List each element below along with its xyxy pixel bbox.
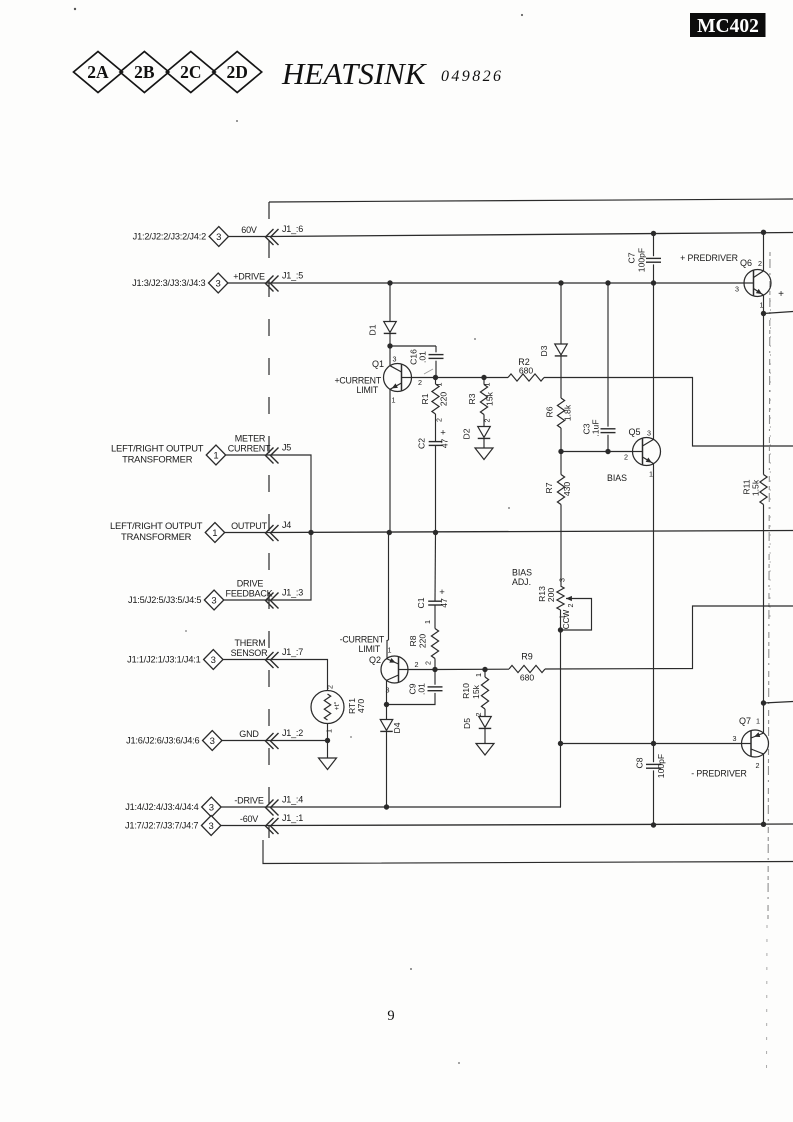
svg-text:1: 1	[325, 729, 334, 733]
wire +DRIVE to D1	[389, 283, 391, 322]
svg-text:3: 3	[647, 429, 651, 438]
junction meter/output	[308, 530, 313, 535]
wire node to C8	[653, 744, 655, 763]
R13 pin 3	[558, 578, 567, 582]
capacitor C9	[408, 683, 443, 695]
svg-text:BIAS: BIAS	[512, 568, 532, 578]
wire +DRIVE to C3	[607, 283, 609, 427]
svg-text:J1_:2: J1_:2	[282, 728, 303, 738]
label + (off-page)	[778, 289, 784, 300]
wire Q2 collector down	[386, 680, 388, 704]
Q5 pin 3	[647, 429, 651, 438]
svg-text:CURRENT: CURRENT	[228, 444, 271, 454]
svg-text:R3: R3	[467, 393, 477, 404]
svg-text:1: 1	[392, 396, 396, 405]
junction Q1 collector node	[387, 343, 392, 348]
connector J4 (OUTPUT)	[110, 520, 291, 543]
svg-text:BIAS: BIAS	[607, 473, 627, 483]
potentiometer R13	[537, 586, 564, 610]
wire C16 link	[390, 345, 436, 347]
svg-text:1: 1	[649, 470, 653, 479]
title number 049826	[441, 68, 503, 85]
svg-text:47: 47	[439, 598, 449, 608]
svg-text:2: 2	[415, 660, 419, 669]
svg-text:D2: D2	[462, 428, 472, 439]
svg-text:J1_:1: J1_:1	[282, 813, 303, 823]
wire R3 to D2	[483, 415, 485, 427]
junction bias node	[558, 449, 563, 454]
svg-text:J1_:6: J1_:6	[282, 224, 303, 234]
svg-text:HEATSINK: HEATSINK	[281, 56, 428, 91]
svg-text:9: 9	[387, 1008, 394, 1024]
wire 60V to C7	[653, 234, 655, 257]
R1 pin 2	[435, 418, 444, 422]
svg-text:C8: C8	[635, 757, 645, 768]
svg-text:3: 3	[393, 355, 397, 364]
svg-text:2: 2	[424, 661, 433, 665]
svg-text:1.5k: 1.5k	[751, 479, 761, 496]
wire 60V bus	[269, 233, 793, 237]
wire RT1 to GND row	[327, 724, 329, 741]
wire to R1	[435, 378, 437, 385]
svg-text:2B: 2B	[134, 62, 155, 82]
svg-text:THERM: THERM	[235, 638, 266, 648]
diode D2	[462, 427, 491, 440]
junction D4/-DRIVE	[384, 804, 389, 809]
RT1 pin 2	[326, 685, 335, 689]
connector J1_:4 (-DRIVE)	[125, 795, 303, 818]
wire C7 to +DRIVE	[653, 264, 655, 283]
title HEATSINK	[281, 56, 428, 91]
svg-text:-CURRENT: -CURRENT	[340, 635, 385, 645]
svg-text:CCW: CCW	[562, 609, 571, 629]
RT1 pin 1	[325, 729, 334, 733]
label BIAS	[607, 473, 627, 483]
svg-text:R1: R1	[420, 393, 430, 404]
junction +DRIVE/C3	[605, 280, 610, 285]
svg-text:15k: 15k	[485, 391, 495, 406]
wire stub off-page right	[764, 702, 793, 704]
capacitor C8	[635, 754, 667, 778]
svg-text:430: 430	[562, 482, 572, 497]
wire GND row	[269, 740, 328, 742]
junction R2-net/R3	[481, 375, 486, 380]
svg-text:R7: R7	[544, 482, 554, 493]
R8 pin 2	[424, 661, 433, 665]
svg-text:GND: GND	[239, 729, 259, 739]
svg-text:+CURRENT: +CURRENT	[334, 376, 381, 386]
transistor Q2	[369, 655, 408, 683]
svg-text:1: 1	[760, 301, 764, 310]
svg-text:3: 3	[211, 655, 216, 666]
svg-text:1: 1	[388, 646, 392, 655]
svg-text:1: 1	[212, 528, 217, 539]
svg-text:1: 1	[756, 717, 760, 726]
svg-text:C1: C1	[416, 597, 426, 608]
R13 wiper	[566, 596, 589, 608]
svg-text:2: 2	[624, 453, 628, 462]
junction Q6 emitter node	[761, 311, 766, 316]
thermistor RT1	[311, 691, 366, 724]
connector J1_:2 (GND)	[126, 728, 303, 751]
wire Q7 emitter to -60V	[763, 754, 765, 824]
svg-text:2: 2	[566, 604, 575, 608]
svg-text:1.8k: 1.8k	[563, 404, 573, 421]
wire -60V bus	[269, 824, 793, 826]
svg-text:J1_:3: J1_:3	[282, 588, 303, 598]
wire R13 to bottom node	[560, 610, 562, 630]
connector J5 (METER CURRENT)	[111, 434, 291, 466]
svg-text:-60V: -60V	[240, 814, 258, 824]
heatsink boundary bottom edge	[263, 840, 793, 864]
svg-text:J1_:7: J1_:7	[282, 647, 303, 657]
wire Q7 base line	[561, 743, 742, 745]
page edge artifact (dashed)	[767, 252, 771, 1075]
sheet reference diamond 2C	[166, 52, 215, 93]
svg-text:3: 3	[216, 232, 221, 243]
resistor R8	[408, 629, 439, 659]
junction C8/-60V	[651, 822, 656, 827]
wire Q2 base node to R9	[435, 668, 509, 670]
svg-text:J1:1/J2:1/J3:1/J4:1: J1:1/J2:1/J3:1/J4:1	[127, 655, 200, 665]
specks	[74, 8, 523, 1064]
svg-text:D4: D4	[392, 722, 402, 733]
svg-text:R9: R9	[521, 652, 533, 662]
svg-text:LIMIT: LIMIT	[359, 644, 381, 654]
wire C9 to Q2 collector node	[387, 693, 436, 705]
svg-text:D5: D5	[462, 718, 472, 729]
svg-text:OUTPUT: OUTPUT	[231, 521, 268, 531]
junction Q2base/R8/C9	[432, 667, 437, 672]
svg-text:+: +	[440, 428, 446, 439]
ground (GND row)	[319, 758, 337, 770]
junction 60V/C7	[651, 231, 656, 236]
diode D1	[368, 322, 397, 336]
wire bias node to R7	[560, 452, 562, 475]
resistor R3	[467, 385, 495, 415]
Q7 pin 2	[756, 761, 760, 770]
capacitor C16	[409, 349, 444, 365]
wire node to C16	[435, 346, 437, 352]
svg-text:ADJ.: ADJ.	[512, 577, 531, 587]
junction Q7/-60V	[761, 822, 766, 827]
svg-text:R6: R6	[545, 406, 555, 417]
wire R13 node down to -DRIVE	[560, 630, 563, 807]
wire C2 to OUTPUT	[435, 445, 437, 532]
transistor Q7	[739, 716, 769, 757]
wire Q5 emitter down (crosses OUTPUT)	[653, 464, 655, 744]
connector J1_:3 (DRIVE FEEDBACK)	[128, 579, 303, 611]
svg-text:-DRIVE: -DRIVE	[234, 796, 263, 806]
wire D1 to node	[389, 334, 391, 346]
wire node to R10	[484, 670, 486, 678]
wire R10 to D5	[484, 709, 486, 717]
svg-text:3: 3	[216, 278, 221, 289]
svg-text:METER: METER	[235, 434, 266, 444]
svg-text:LEFT/RIGHT OUTPUT: LEFT/RIGHT OUTPUT	[111, 443, 204, 454]
R3 pin 2	[483, 419, 492, 423]
svg-text:3: 3	[733, 734, 737, 743]
resistor R6	[545, 398, 573, 428]
wire C1 to R8	[434, 605, 436, 629]
svg-text:3: 3	[209, 821, 214, 832]
Q6 pin 3	[735, 285, 739, 294]
junction bias/C3	[605, 449, 610, 454]
wire R7 to R13 (crosses OUTPUT)	[560, 505, 562, 587]
svg-text:R8: R8	[408, 635, 418, 646]
junction +DRIVE/D3	[558, 280, 563, 285]
svg-text:1: 1	[474, 673, 483, 677]
svg-text:680: 680	[520, 673, 535, 683]
svg-text:+ PREDRIVER: + PREDRIVER	[680, 253, 738, 263]
svg-text:3: 3	[210, 736, 215, 747]
diode D4	[380, 720, 402, 734]
transistor Q1	[372, 359, 412, 392]
capacitor C2 (polarized)	[417, 428, 450, 450]
resistor R1	[420, 384, 449, 414]
wire Q1 emitter to OUTPUT	[389, 389, 391, 532]
wire Q2 node to D4	[386, 705, 388, 720]
wire R1 to C2	[435, 414, 437, 442]
transistor Q5	[628, 427, 660, 466]
wire R6 to bias node	[560, 428, 562, 452]
Q2 pin 2	[415, 660, 419, 669]
svg-text:220: 220	[418, 634, 428, 649]
wire OUTPUT to C1	[434, 533, 437, 602]
R3 pin 1	[483, 383, 492, 387]
svg-text:R10: R10	[461, 683, 471, 699]
svg-text:60V: 60V	[241, 225, 257, 235]
svg-text:J4: J4	[282, 520, 291, 530]
svg-text:- PREDRIVER: - PREDRIVER	[691, 769, 747, 779]
wire R11 to Q7 node (crosses OUTPUT)	[763, 505, 765, 704]
svg-text:J1:3/J2:3/J3:3/J4:3: J1:3/J2:3/J3:3/J4:3	[132, 278, 205, 288]
wire C16 to base node	[435, 361, 437, 378]
wire Q6 emitter to node	[763, 295, 765, 313]
resistor R7	[544, 475, 572, 505]
junction Q7-base-line/R13-line	[558, 741, 563, 746]
svg-text:DRIVE: DRIVE	[237, 579, 264, 589]
svg-text:D3: D3	[539, 345, 549, 356]
Q6 pin 1	[760, 301, 764, 310]
wire Q1 base lead	[412, 377, 436, 379]
wire R8 to base node	[434, 659, 436, 670]
svg-text:2: 2	[758, 259, 762, 268]
svg-text:15k: 15k	[471, 684, 481, 699]
svg-text:J1:5/J2:5/J3:5/J4:5: J1:5/J2:5/J3:5/J4:5	[128, 595, 201, 605]
svg-text:J1_:4: J1_:4	[282, 795, 303, 805]
wire D2 to ground	[483, 439, 485, 448]
svg-text:LEFT/RIGHT OUTPUT: LEFT/RIGHT OUTPUT	[110, 520, 203, 531]
svg-text:Q6: Q6	[740, 258, 752, 268]
connector J1_:5 (+DRIVE)	[132, 271, 303, 294]
Q2 pin 3	[386, 686, 390, 695]
wire +DRIVE to Q5 collector	[653, 283, 655, 439]
svg-text:J1:7/J2:7/J3:7/J4:7: J1:7/J2:7/J3:7/J4:7	[125, 821, 198, 831]
svg-text:SENSOR: SENSOR	[231, 648, 269, 658]
svg-text:680: 680	[519, 366, 534, 376]
svg-text:2A: 2A	[87, 62, 109, 82]
svg-text:.01: .01	[417, 683, 427, 695]
svg-text:Q7: Q7	[739, 716, 751, 726]
svg-text:.01: .01	[418, 351, 428, 363]
label + PREDRIVER	[680, 253, 738, 263]
svg-text:220: 220	[439, 392, 449, 407]
wire THERM SENSOR to RT1	[269, 660, 328, 691]
wire Q2 base lead	[408, 669, 435, 671]
wire Q6 node to R11	[763, 314, 765, 475]
wire R13 wiper loop	[561, 599, 592, 631]
svg-text:100pF: 100pF	[637, 248, 647, 272]
svg-text:J1:2/J2:2/J3:2/J4:2: J1:2/J2:2/J3:2/J4:2	[133, 232, 206, 242]
wire Q7 collector up	[763, 703, 765, 733]
wire R9 to right corner	[545, 606, 793, 669]
svg-text:3: 3	[211, 595, 216, 606]
svg-text:C7: C7	[627, 252, 637, 263]
svg-text:FEEDBACK: FEEDBACK	[226, 589, 273, 599]
svg-text:1: 1	[423, 620, 432, 624]
MC402 title block	[690, 13, 766, 37]
wire OUTPUT bus	[269, 531, 793, 533]
junction R13 bottom	[558, 627, 563, 632]
wire GND to ground symbol	[327, 741, 329, 759]
Q2 pin 1	[388, 646, 392, 655]
label +CURRENT LIMIT	[334, 376, 381, 396]
svg-text:+: +	[778, 289, 784, 300]
R8 pin 1	[423, 620, 432, 624]
ground (D2)	[475, 448, 493, 460]
svg-text:3: 3	[558, 578, 567, 582]
junction +DRIVE/D1	[387, 280, 392, 285]
Q1 pin 1	[392, 396, 396, 405]
connector J1_:1 (-60V)	[125, 813, 303, 836]
sheet reference diamond 2D	[213, 52, 262, 93]
junction 60V/Q6 collector	[761, 230, 766, 235]
svg-text:2D: 2D	[227, 62, 248, 82]
wire Q1 collector	[389, 346, 391, 366]
svg-text:47: 47	[440, 439, 450, 449]
junction Q1/OUTPUT	[387, 530, 392, 535]
wire D3 to R6	[560, 357, 562, 399]
Q1 pin 2	[418, 378, 422, 387]
svg-text:Q5: Q5	[628, 427, 640, 437]
svg-text:MC402: MC402	[697, 16, 759, 37]
capacitor C1 (polarized)	[416, 587, 449, 609]
junction +DRIVE/C7	[651, 280, 656, 285]
svg-text:J5: J5	[282, 443, 291, 453]
svg-text:2: 2	[418, 378, 422, 387]
Q7 pin 1	[756, 717, 760, 726]
svg-text:049826: 049826	[441, 68, 503, 85]
wire bias line	[561, 451, 633, 453]
wire D4 to -DRIVE	[386, 732, 388, 807]
junction R2-net/R1	[433, 375, 438, 380]
Q6 pin 2	[758, 259, 762, 268]
ground (D5)	[476, 744, 494, 756]
wire +DRIVE to D3	[560, 283, 562, 344]
svg-text:3: 3	[209, 802, 214, 813]
Q5 pin 2	[624, 453, 628, 462]
svg-text:2: 2	[756, 761, 760, 770]
R10 pin 2	[474, 713, 483, 717]
junction Q7-base-line/C8	[651, 741, 656, 746]
junction Q2base/R10	[482, 667, 487, 672]
transistor Q6	[740, 258, 771, 297]
svg-text:.1uF: .1uF	[591, 419, 601, 436]
svg-text:470: 470	[356, 699, 366, 714]
svg-text:200: 200	[546, 588, 556, 603]
heatsink boundary left edge (dashed)	[268, 202, 270, 838]
wire Q6 collector to 60V	[763, 232, 765, 271]
svg-text:D1: D1	[368, 324, 378, 335]
heatsink boundary top edge	[269, 199, 793, 202]
svg-text:+DRIVE: +DRIVE	[233, 272, 265, 282]
wire to R3	[483, 378, 485, 385]
capacitor C7	[627, 248, 662, 272]
svg-text:Q1: Q1	[372, 359, 384, 369]
svg-text:TRANSFORMER: TRANSFORMER	[121, 531, 192, 542]
connector J1_:6 (60V)	[133, 224, 304, 247]
wire base node to R2	[435, 377, 508, 379]
Q5 pin 1	[649, 470, 653, 479]
svg-text:+: +	[439, 587, 445, 598]
svg-text:J1_:5: J1_:5	[282, 271, 303, 281]
junction RT1/GND	[325, 738, 330, 743]
R1 pin 1	[435, 383, 444, 387]
wire D5 to ground	[484, 729, 486, 744]
junction Q7 collector node	[761, 700, 766, 705]
resistor R10	[461, 677, 489, 709]
svg-text:J1:6/J2:6/J3:6/J4:6: J1:6/J2:6/J3:6/J4:6	[126, 736, 199, 746]
sheet reference diamond 2A	[74, 52, 123, 93]
svg-text:3: 3	[735, 285, 739, 294]
resistor R2	[508, 357, 544, 381]
resistor R11	[742, 475, 768, 505]
diode D3	[539, 344, 567, 357]
wire +DRIVE bus	[269, 282, 744, 284]
wire OUTPUT to Q2 emitter	[387, 533, 389, 659]
R10 pin 1	[474, 673, 483, 677]
junction C2-C1/OUTPUT	[433, 530, 438, 535]
wire C3 to bias node	[607, 435, 609, 452]
svg-text:+t°: +t°	[333, 701, 341, 710]
sheet reference diamond 2B	[120, 52, 169, 93]
label - PREDRIVER	[691, 769, 747, 779]
svg-text:J1:4/J2:4/J3:4/J4:4: J1:4/J2:4/J3:4/J4:4	[125, 802, 198, 812]
junction Q2 collector node	[384, 702, 389, 707]
wire node to C9	[434, 670, 436, 685]
wire C8 to -60V	[653, 770, 655, 825]
Q7 pin 3	[733, 734, 737, 743]
wire meter-current to output feedback	[269, 455, 311, 600]
svg-text:C2: C2	[417, 438, 427, 449]
resistor R9	[509, 652, 545, 683]
svg-text:Q2: Q2	[369, 655, 381, 665]
page number 9	[387, 1008, 394, 1024]
wire -DRIVE bus	[269, 806, 561, 808]
label CCW	[562, 609, 571, 629]
svg-text:100pF: 100pF	[656, 754, 666, 778]
diode D5	[462, 717, 491, 730]
capacitor C3	[582, 419, 616, 436]
connector J1_:7 (THERM SENSOR)	[127, 638, 303, 670]
label BIAS ADJ.	[512, 568, 532, 588]
svg-text:TRANSFORMER: TRANSFORMER	[122, 454, 193, 465]
svg-text:2: 2	[326, 685, 335, 689]
svg-text:LIMIT: LIMIT	[357, 385, 379, 395]
R13 pin 1	[558, 615, 567, 619]
label -CURRENT LIMIT	[340, 635, 385, 655]
